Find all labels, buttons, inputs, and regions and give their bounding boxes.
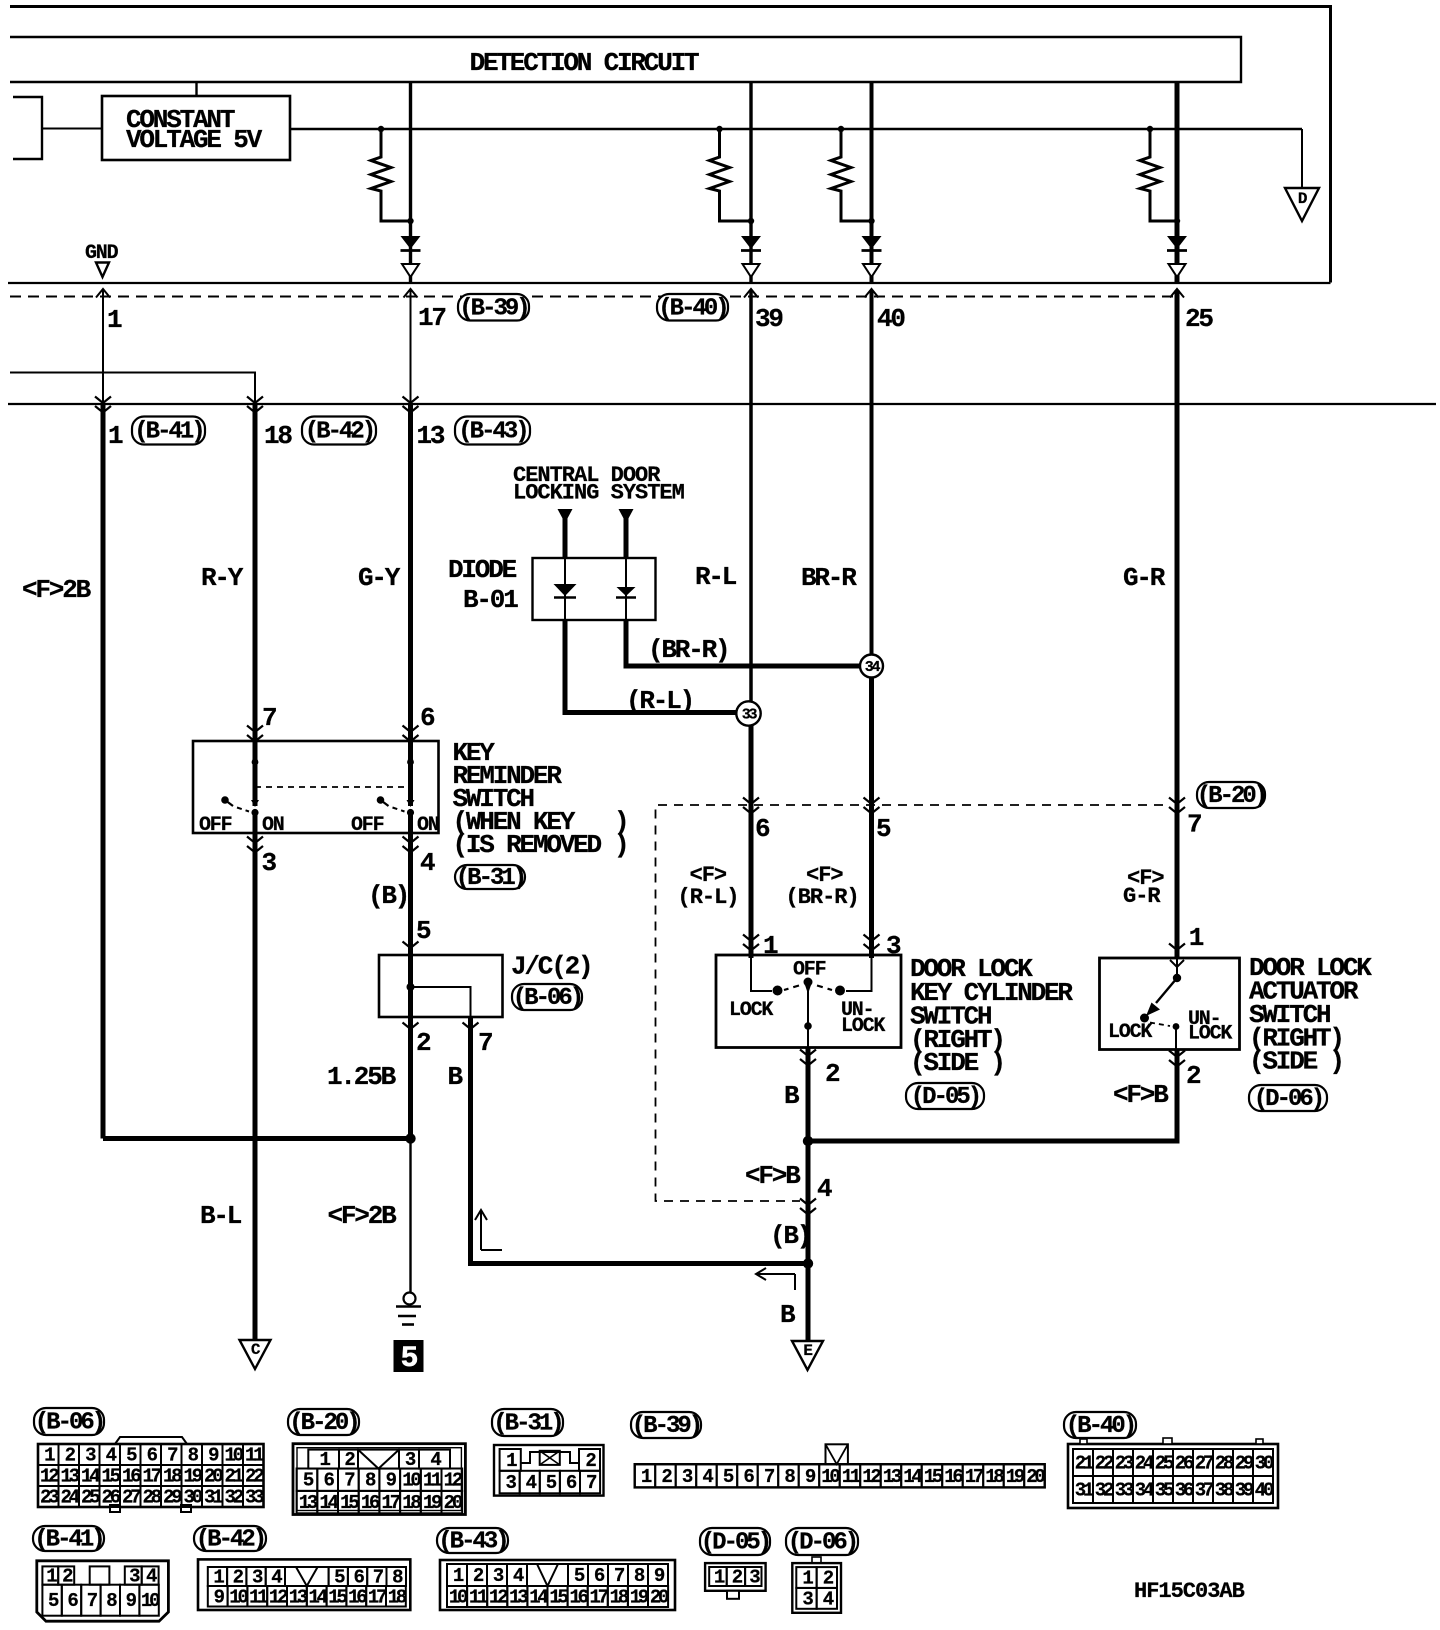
svg-text:11: 11 [842,1466,861,1488]
wire 5V rail down to connector D [1301,129,1303,188]
svg-text:22: 22 [245,1466,264,1488]
svg-text:R-Y: R-Y [201,563,244,593]
svg-text:(R-L): (R-L) [626,686,693,716]
svg-text:14: 14 [81,1466,100,1488]
svg-text:DIODE: DIODE [448,555,517,585]
pass-through arrows pin 4 [403,837,419,844]
pass-through arrows pin 13 (B-43) [403,397,419,404]
svg-text:13: 13 [299,1492,318,1514]
svg-text:5: 5 [416,916,431,946]
svg-text:17: 17 [143,1466,162,1488]
pin 2 arrow below J/C [403,1023,419,1030]
svg-text:11: 11 [469,1587,488,1609]
wire BR-R upper segment [870,290,874,404]
svg-text:25: 25 [81,1487,100,1509]
chassis ground symbol [404,1293,416,1305]
connector B-41 label [33,1526,104,1551]
connector label B-06 (inline) [512,984,582,1010]
svg-text:26: 26 [1175,1453,1194,1475]
svg-text:19: 19 [1006,1466,1025,1488]
svg-text:HF15C03AB: HF15C03AB [1134,1579,1245,1604]
diode B-01 box [533,558,656,620]
svg-text:30: 30 [1255,1453,1274,1475]
svg-text:13: 13 [289,1586,308,1608]
connector B-06 label [34,1408,104,1435]
svg-text:11: 11 [249,1586,268,1608]
svg-text:(B-39): (B-39) [632,1413,700,1440]
svg-text:17: 17 [418,303,445,333]
svg-text:14: 14 [903,1466,922,1488]
svg-text:6: 6 [420,703,435,733]
connector B-40 pin diagram [1068,1444,1278,1508]
svg-text:11: 11 [423,1470,442,1492]
wire G-Y vertical [408,404,413,741]
svg-text:17: 17 [965,1466,984,1488]
svg-text:(D-06): (D-06) [788,1530,856,1557]
ECU outline box (top) [10,7,1331,283]
wire 1.25B from J/C pin2 to splice [408,1017,413,1139]
svg-text:17: 17 [368,1586,387,1608]
connector D-05 pin diagram [705,1563,766,1591]
svg-text:3: 3 [262,848,277,878]
connector B-31 pin diagram [494,1445,604,1496]
J/C internal wire and splice [408,955,413,1017]
connector pin arrow below diode R3 [863,264,880,277]
svg-text:38: 38 [1215,1480,1234,1502]
svg-text:16: 16 [569,1587,588,1609]
svg-text:12: 12 [862,1466,881,1488]
svg-text:13: 13 [61,1466,80,1488]
wire R-L vertical [749,404,753,714]
svg-text:<F>2B: <F>2B [328,1201,398,1231]
key cylinder lock contact wire [751,955,772,991]
svg-text:(B-42): (B-42) [305,419,373,446]
svg-text:BR-R: BR-R [801,563,857,593]
svg-text:28: 28 [1215,1453,1234,1475]
wire B to ground E [806,1264,811,1342]
svg-text:(B): (B) [368,881,408,911]
small box at left edge (cropped) [13,97,42,159]
svg-text:19: 19 [423,1492,442,1514]
wire <F>2B vertical (pin1 to splice) [101,404,106,1139]
svg-text:(B-20): (B-20) [1197,783,1265,810]
key cylinder common wire down [807,984,809,1048]
svg-text:22: 22 [1095,1453,1114,1475]
door lock key cylinder switch box D-05 [716,955,901,1048]
svg-text:33: 33 [245,1487,264,1509]
svg-text:21: 21 [225,1466,244,1488]
svg-text:(R-L): (R-L) [678,885,739,910]
svg-text:16: 16 [348,1586,367,1608]
junction connector J/C(2) box [379,955,503,1017]
svg-text:10: 10 [141,1590,160,1612]
connector label D-06 [1249,1085,1327,1111]
svg-text:(D-05): (D-05) [911,1084,979,1111]
connector label B-43 (inline) [455,417,530,445]
svg-text:7: 7 [1187,810,1201,840]
splice dot at 2B junction [405,1133,415,1143]
connector D triangle [1285,188,1319,221]
wire (BR-R) from diode to junction 34 [626,620,861,666]
svg-text:18: 18 [163,1466,182,1488]
svg-text:1: 1 [763,931,778,961]
diode R4 (zener to ground line) [1167,236,1187,249]
svg-text:25: 25 [1185,304,1213,334]
svg-text:(B-43): (B-43) [438,1529,506,1556]
svg-text:(IS REMOVED: (IS REMOVED [453,830,602,860]
svg-text:17: 17 [590,1587,609,1609]
svg-text:(BR-R): (BR-R) [648,635,728,665]
page continuation arrow (up) [475,1210,502,1250]
svg-text:27: 27 [1195,1453,1214,1475]
svg-text:15: 15 [924,1466,943,1488]
svg-text:21: 21 [1075,1453,1094,1475]
connector B-20 arrows pin 6 (R-L) [743,798,759,805]
wire BR-R below junction 34 [869,677,874,958]
connector B-20 arrows pin 7 (G-R) [1169,798,1185,805]
svg-text:20: 20 [444,1492,463,1514]
svg-text:18: 18 [985,1466,1004,1488]
svg-text:(SIDE ): (SIDE ) [1249,1047,1343,1077]
svg-text:<F>B: <F>B [745,1161,801,1191]
DETECTION CIRCUIT box [10,37,1241,82]
pin 1 arrow (GND) [96,289,110,298]
pass-through arrows pin 6 key reminder [403,726,419,733]
resistor R2 (pull-up) [716,126,722,132]
junction circle 33 [736,701,760,725]
svg-text:6: 6 [755,814,770,844]
pass-through arrows pin 7 key reminder [247,726,263,733]
svg-text:14: 14 [529,1587,548,1609]
svg-text:2: 2 [416,1028,431,1058]
svg-text:7: 7 [478,1028,492,1058]
svg-text:): ) [614,830,627,860]
svg-text:31: 31 [1075,1480,1094,1502]
svg-text:(D-05): (D-05) [701,1530,769,1557]
svg-text:15: 15 [328,1586,347,1608]
pin 3 arrows into key cylinder switch [864,935,880,942]
svg-text:19: 19 [630,1587,649,1609]
svg-text:LOCK: LOCK [1188,1023,1232,1046]
svg-text:4: 4 [817,1174,832,1204]
svg-text:5: 5 [400,1342,417,1376]
diode R3 (zener to ground line) [862,236,882,249]
connector label D-05 [906,1083,984,1109]
ground triangle C [240,1340,271,1369]
splice dot with J/C B wire [803,1258,813,1268]
pin 40 arrow [865,289,879,298]
svg-text:14: 14 [319,1492,338,1514]
svg-text:10: 10 [225,1445,244,1467]
door lock actuator switch box D-06 [1100,958,1240,1050]
key cylinder blade dashed (to LOCK) [784,986,799,991]
wire R-L below junction 33 [749,725,754,958]
svg-text:20: 20 [1026,1466,1045,1488]
wire B from J/C pin7 down and right to splice [471,1017,809,1264]
svg-text:4: 4 [420,848,435,878]
svg-text:B-01: B-01 [463,585,518,615]
pin 2 arrows below actuator switch [1169,1051,1185,1058]
svg-text:33: 33 [742,707,758,724]
svg-text:DETECTION CIRCUIT: DETECTION CIRCUIT [470,48,699,78]
pass-through arrows pin 3 [247,837,263,844]
diode R2 (zener to ground line) [741,236,761,249]
svg-text:18: 18 [388,1586,407,1608]
connector boundary dashed line [10,296,1177,298]
wire 17 vertical (detection to pin 17) [409,83,412,283]
svg-text:2: 2 [1186,1061,1201,1091]
svg-text:G-Y: G-Y [358,563,401,593]
connector B-43 label [437,1528,508,1553]
CONSTANT VOLTAGE 5V box [102,96,290,160]
wire 39 vertical (detection to pin 39) [749,83,752,283]
key reminder switch box B-31 [193,741,439,833]
right switch blade (OFF position) [377,796,385,804]
svg-text:5: 5 [876,814,891,844]
page continuation arrow (left) [756,1268,795,1290]
svg-text:10: 10 [229,1586,248,1608]
svg-text:34: 34 [865,659,881,676]
pin 17 arrow [404,289,418,298]
svg-text:12: 12 [269,1586,288,1608]
svg-text:39: 39 [1235,1480,1254,1502]
svg-text:LOCKING SYSTEM: LOCKING SYSTEM [513,481,685,506]
diode element 1 in B-01 [564,558,566,620]
pin 39 arrow [744,289,758,298]
svg-text:31: 31 [204,1487,223,1509]
connector label B-20 [1197,782,1265,808]
connector label B-31 [455,865,525,889]
connector D-06 pin diagram [812,1557,821,1563]
svg-text:29: 29 [1235,1453,1254,1475]
actuator switch blade to LOCK [1156,978,1177,1003]
connector B-20 pin diagram [293,1444,465,1515]
connector B-39 label [631,1412,701,1438]
wire R-Y vertical [253,404,258,741]
connector B-20 label [288,1409,359,1435]
switch wires to box bottom [253,812,258,833]
svg-text:OFF: OFF [351,814,384,837]
svg-text:12: 12 [489,1587,508,1609]
diode element 2 in B-01 [625,558,627,620]
pin 7 arrow below J/C [463,1023,479,1030]
svg-text:35: 35 [1155,1480,1174,1502]
pin 1 arrow into actuator switch [1169,944,1185,951]
svg-text:26: 26 [102,1487,121,1509]
svg-text:LOCK: LOCK [1108,1021,1152,1044]
junction circle 34 [860,655,883,678]
wire (R-L) from diode to junction 33 [565,620,737,713]
actuator common wire down [1175,1027,1177,1050]
connector pin arrow below diode R1 [402,264,419,277]
left switch blade (OFF position) [221,796,229,804]
door boundary dashed box [656,805,1164,1201]
svg-text:E: E [803,1342,812,1360]
wire R-L upper segment [749,290,753,404]
svg-text:1: 1 [108,421,123,451]
svg-text:18: 18 [610,1587,629,1609]
connector B-40 label [1064,1412,1136,1438]
svg-text:ON: ON [262,814,284,837]
svg-text:1: 1 [1189,923,1204,953]
diode R1 (zener to ground line) [401,236,421,249]
svg-text:(SIDE ): (SIDE ) [910,1048,1004,1078]
svg-text:ON: ON [417,814,439,837]
svg-text:24: 24 [61,1487,80,1509]
svg-text:(B-43): (B-43) [458,419,526,446]
svg-text:(BR-R): (BR-R) [786,885,859,910]
wire B from key cylinder to splice [806,1048,811,1264]
svg-text:(B-06): (B-06) [513,985,581,1012]
svg-text:23: 23 [40,1487,59,1509]
svg-text:20: 20 [650,1587,669,1609]
svg-text:10: 10 [402,1470,421,1492]
wire pin17 down to junction row [410,290,412,404]
svg-text:J/C(2): J/C(2) [511,952,591,982]
junction block boundary line [8,403,1436,405]
pass-through arrows pin 18 (B-42) [247,397,263,404]
svg-text:G-R: G-R [1123,563,1166,593]
svg-text:40: 40 [1255,1480,1274,1502]
svg-text:18: 18 [402,1492,421,1514]
ECU outline bottom line [8,282,1331,284]
svg-text:29: 29 [163,1487,182,1509]
svg-text:11: 11 [245,1445,264,1467]
connector B-42 label [194,1526,266,1551]
svg-text:19: 19 [184,1466,203,1488]
svg-text:3: 3 [886,931,901,961]
svg-text:VOLTAGE 5V: VOLTAGE 5V [126,125,263,155]
resistor R1 (pull-up) [378,126,384,132]
svg-text:(B-06): (B-06) [35,1410,103,1437]
wire from central locking system (left) with arrow [558,509,573,523]
svg-text:(B-20): (B-20) [289,1410,357,1437]
resistor R3 (pull-up) [838,126,844,132]
connector label B-40 [657,294,728,321]
wire (B) from key reminder to J/C [408,833,413,955]
svg-text:15: 15 [102,1466,121,1488]
svg-text:1: 1 [107,305,122,335]
pin 1 arrows into key cylinder switch [743,935,759,942]
wire <F>B from actuator to splice [808,1049,1177,1141]
svg-text:10: 10 [821,1466,840,1488]
wire <F>2B from splice to ground [409,1139,411,1293]
wire G-R upper segment [1175,290,1180,404]
connector B-41 pin diagram [37,1561,169,1621]
svg-text:(B-41): (B-41) [34,1527,102,1554]
wire detection box to constant voltage box [195,83,197,96]
pin 5 arrow into J/C [403,942,419,949]
svg-text:12: 12 [40,1466,59,1488]
key cylinder unlock contact wire [846,955,872,991]
ground point 5 (black box) [394,1340,424,1372]
svg-text:2: 2 [825,1059,840,1089]
svg-text:16: 16 [122,1466,141,1488]
svg-text:37: 37 [1195,1480,1214,1502]
svg-text:36: 36 [1175,1480,1194,1502]
actuator switch pivot and wire [1176,958,1178,976]
svg-text:(B-39): (B-39) [459,295,527,322]
key cylinder blade dashed (to UNLOCK) [817,986,832,991]
svg-text:13: 13 [417,421,445,451]
svg-text:27: 27 [122,1487,141,1509]
connector B-39 pin diagram [635,1464,1045,1487]
svg-text:24: 24 [1135,1453,1154,1475]
svg-text:1.25B: 1.25B [327,1062,397,1092]
connector label B-39 [458,294,529,321]
5V supply rail wire [290,128,1302,131]
svg-text:10: 10 [449,1587,468,1609]
svg-text:(B-41): (B-41) [134,419,202,446]
svg-text:20: 20 [204,1466,223,1488]
key reminder switch left pole wire [253,741,258,806]
svg-text:16: 16 [361,1492,380,1514]
svg-text:25: 25 [1155,1453,1174,1475]
wire 40 vertical (detection to pin 40) [870,83,874,283]
svg-text:(B-40): (B-40) [658,295,726,322]
svg-text:D: D [1298,190,1307,208]
svg-text:30: 30 [184,1487,203,1509]
svg-text:13: 13 [509,1587,528,1609]
svg-text:R-L: R-L [695,562,737,592]
svg-text:(B-31): (B-31) [493,1411,561,1438]
resistor R4 (pull-up) [1147,126,1153,132]
key cylinder common pivot [804,978,813,987]
svg-text:40: 40 [877,304,905,334]
svg-text:13: 13 [883,1466,902,1488]
svg-text:(B-42): (B-42) [196,1527,264,1554]
pass-through arrows pin 1 (B-41) [95,397,111,404]
connector pin arrow below diode R4 [1169,264,1186,277]
pin 2 arrows below key cylinder switch [800,1050,816,1057]
switch linkage dashed line [255,786,411,788]
svg-text:17: 17 [382,1492,401,1514]
svg-text:14: 14 [308,1586,327,1608]
svg-text:LOCK: LOCK [729,999,773,1022]
svg-text:15: 15 [340,1492,359,1514]
svg-text:23: 23 [1115,1453,1134,1475]
svg-text:(B-31): (B-31) [456,865,524,892]
svg-text:G-R: G-R [1123,884,1161,909]
connector label B-41 (inline) [132,417,205,445]
splice wire pin1 to ground line [103,1136,411,1141]
svg-text:(B): (B) [770,1221,810,1251]
svg-text:12: 12 [444,1470,463,1492]
key reminder switch right pole wire [408,741,413,806]
connector D-06 label [786,1528,858,1555]
svg-text:(B-40): (B-40) [1066,1413,1134,1440]
connector B-43 pin diagram [440,1560,675,1610]
connector pin arrow below diode R2 [743,264,760,277]
svg-text:OFF: OFF [199,814,232,837]
connector B-31 label [492,1409,563,1436]
connector B-42 pin diagram [198,1559,410,1610]
pin 25 arrow [1170,289,1184,298]
splice dot actuator/key cylinder B wires [803,1136,813,1146]
svg-text:39: 39 [755,304,783,334]
wire 25 vertical (detection to pin 25) [1175,83,1180,283]
svg-text:18: 18 [264,421,292,451]
svg-text:28: 28 [143,1487,162,1509]
ground triangle E [792,1341,823,1370]
connector B-20 arrows pin 5 (BR-R) [864,798,880,805]
svg-text:7: 7 [262,703,276,733]
svg-text:B-L: B-L [200,1201,242,1231]
connector label B-42 (inline) [302,417,376,445]
svg-text:<F>B: <F>B [1113,1080,1169,1110]
svg-text:16: 16 [944,1466,963,1488]
connector B-06 pin diagram [38,1444,264,1507]
